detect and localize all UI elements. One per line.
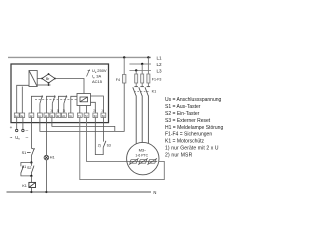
svg-text:H1 = Meldelampe Störung: H1 = Meldelampe Störung: [165, 125, 223, 131]
junction dot lamp-N: [45, 191, 47, 193]
svg-text:2): 2): [98, 144, 101, 148]
svg-text:S2 = Ein-Taster: S2 = Ein-Taster: [165, 111, 200, 117]
wire t5 down to lamp H1: [45, 118, 47, 156]
svg-text:L1: L1: [157, 55, 163, 60]
relay inner symbol: [80, 97, 88, 102]
svg-text:–: –: [26, 128, 29, 133]
linkage dashed line contacts: [35, 98, 77, 100]
switch S1 (NC pushbutton): [27, 148, 35, 156]
supply terminal circle -: [22, 129, 24, 131]
svg-text:2) nur MSR: 2) nur MSR: [165, 152, 193, 158]
svg-text:–: –: [26, 135, 29, 140]
wire coil to N: [30, 188, 32, 193]
terminal t1: [14, 113, 19, 118]
terminal t8: [62, 113, 67, 118]
svg-text:1-6 PTC: 1-6 PTC: [135, 154, 148, 158]
wire t4 to F4 (phase feed): [40, 83, 124, 131]
thermistor 1: [130, 160, 138, 164]
svg-text:K1 = Motorschütz: K1 = Motorschütz: [165, 139, 205, 145]
switch S3 (external reset) blade: [103, 141, 106, 148]
terminal tick marks: [15, 115, 105, 118]
fuse F4: [123, 75, 126, 84]
switch S2 blade (NO pushbutton): [30, 163, 32, 166]
wire t11 to PTC left: [87, 118, 129, 162]
svg-text:S3: S3: [107, 144, 111, 148]
node A dot: [30, 161, 32, 163]
wire Br->relay box: [55, 79, 84, 94]
supply terminal circle +: [16, 129, 18, 131]
svg-text:Us = Anschlussspannung: Us = Anschlussspannung: [165, 97, 222, 103]
wire t2 to transformer: [21, 87, 23, 114]
svg-text:AC15: AC15: [92, 79, 103, 84]
junction dot L3-phase1: [135, 69, 137, 71]
wire lamp to N: [45, 160, 47, 192]
terminal t2: [20, 113, 25, 118]
terminal t12: [93, 113, 98, 118]
wire t9 to relay box: [71, 96, 77, 113]
wire relay->t10: [79, 106, 81, 114]
svg-text:F4: F4: [116, 78, 120, 82]
wire relay->t11: [86, 106, 88, 114]
wire phase3 vertical L1->fuse F3: [147, 57, 149, 74]
svg-text:S1: S1: [22, 151, 27, 155]
wire t2 to Us- terminal: [22, 118, 24, 130]
svg-text:L2: L2: [157, 62, 163, 67]
svg-text:1): 1): [50, 109, 53, 113]
node N line: [7, 191, 152, 193]
terminal t6: [50, 113, 55, 118]
terminal t10: [77, 113, 82, 118]
wire S1 to node A: [30, 156, 32, 163]
legend text: [165, 97, 223, 158]
K1 aux branch loop: [21, 163, 32, 167]
terminal t11: [84, 113, 89, 118]
terminal labels 1) above t6 t7 t8: [50, 109, 104, 113]
internal contact 1: [31, 95, 42, 113]
fuse F1: [135, 74, 138, 83]
node B dot: [30, 175, 32, 177]
junction dot L1-phase3: [147, 56, 149, 58]
svg-text:K1: K1: [152, 89, 157, 93]
label Ue 250V / Ie 3A / AC15: [92, 68, 107, 84]
wire L2: [129, 63, 151, 65]
wire t1 to transformer: [17, 85, 29, 113]
node labels L1 L2 L3: [157, 55, 163, 73]
wire phase1 fuse->contact: [136, 83, 148, 87]
svg-text:Us: Us: [15, 135, 20, 141]
junction dot L2-phase2: [141, 63, 143, 65]
svg-text:S2: S2: [27, 166, 31, 170]
thermistor 3: [148, 160, 156, 164]
wire relay->t13 right upper: [91, 96, 104, 113]
junction dot coil-N: [30, 191, 32, 193]
wire relay->t12 right lower: [91, 102, 96, 113]
svg-text:K1: K1: [22, 184, 27, 188]
terminal t9: [68, 113, 73, 118]
wire L3: [129, 69, 151, 71]
wire t13 down: [102, 118, 104, 142]
svg-text:+: +: [10, 125, 13, 130]
terminal t5: [44, 113, 49, 118]
device box: [11, 64, 109, 123]
svg-text:M3~: M3~: [139, 147, 147, 152]
wire F4 feed vertical from L1: [123, 57, 125, 74]
thermistor 2: [139, 160, 147, 164]
contact rating symbol: [87, 70, 91, 77]
fuse F3: [147, 74, 150, 83]
contactor K1 main contact 2: [139, 87, 144, 143]
terminal t13: [101, 113, 106, 118]
svg-text:1): 1): [63, 109, 66, 113]
svg-text:2): 2): [93, 109, 96, 113]
relay box U1: [77, 94, 91, 106]
lamp H1: [44, 155, 49, 160]
terminal t4: [38, 113, 43, 118]
power supply unit (transformer): [29, 71, 37, 87]
wire phase1 vertical L3->fuse F1: [124, 57, 148, 74]
wire t3 down to S1: [30, 118, 32, 149]
svg-text:K1: K1: [22, 165, 26, 169]
terminal t3: [29, 113, 34, 118]
svg-text:1): 1): [101, 109, 104, 113]
linkage dashes K1 contacts: [134, 90, 150, 92]
node L1 : supply line L1: [8, 56, 151, 58]
wire t1 to Us+ terminal: [16, 118, 18, 130]
svg-text:F1-F4 = Sicherungen: F1-F4 = Sicherungen: [165, 132, 212, 138]
svg-text:S3 = Externer Reset: S3 = Externer Reset: [165, 118, 211, 124]
svg-text:L3: L3: [157, 68, 163, 73]
terminal row: [14, 113, 106, 118]
PTC thermistor symbols: [128, 158, 157, 164]
svg-text:S1 = Aus-Taster: S1 = Aus-Taster: [165, 104, 201, 110]
svg-text:~: ~: [10, 135, 13, 140]
wire node B to coil: [30, 176, 32, 183]
junction dot L1-F4: [123, 56, 125, 58]
terminal t7: [56, 113, 61, 118]
wire t10 PTC loop left leg: [80, 118, 165, 180]
internal contact 2: [46, 95, 55, 113]
svg-text:H1: H1: [50, 156, 55, 160]
wire transformer bottom to Br bottom: [37, 84, 50, 86]
wire t12 S3 loop: [95, 118, 103, 155]
bridge rectifier Br: [42, 74, 55, 83]
wire phase2 vertical L2->fuse F2: [141, 64, 143, 74]
svg-text:N: N: [153, 190, 156, 195]
internal contact 3: [58, 95, 67, 113]
wire transformer->Br: [37, 78, 42, 80]
K1 aux contact blade: [21, 166, 24, 173]
svg-text:1) nur Geräte mit 2 x U: 1) nur Geräte mit 2 x U: [165, 146, 219, 152]
svg-text:F1-F3: F1-F3: [152, 78, 162, 82]
svg-text:1): 1): [57, 109, 60, 113]
motor M1 circle: [127, 142, 159, 174]
contactor K1 main contact 3: [145, 87, 150, 144]
wire t6 feed join: [52, 118, 115, 132]
contactor coil K1: [29, 182, 36, 187]
Br corner dots: [41, 78, 43, 80]
contactor K1 main contact 1: [133, 87, 138, 144]
fuse F2: [141, 74, 144, 83]
